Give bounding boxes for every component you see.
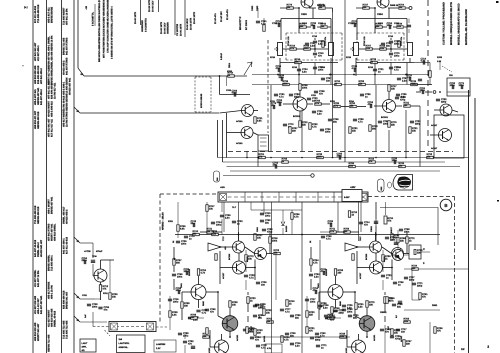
resistor R7R6 — [371, 61, 378, 63]
wire rail drop — [388, 130, 390, 152]
svg-text:1k 5% RT/WS: 1k 5% RT/WS — [66, 111, 69, 127]
resistor — [403, 340, 405, 347]
svg-text:C706: C706 — [226, 89, 232, 92]
wire — [219, 251, 221, 284]
capacitor — [436, 99, 440, 100]
transistor T81 — [370, 241, 382, 253]
wire bus2 (y113) — [80, 112, 219, 114]
potentiometer P7R1 — [354, 43, 359, 56]
resistor — [412, 268, 419, 270]
svg-text:2.2n: 2.2n — [402, 79, 407, 82]
svg-text:C716: C716 — [388, 35, 394, 38]
svg-text:405-2 406 618: 405-2 406 618 — [51, 101, 54, 117]
transistor T803 — [393, 250, 404, 261]
wire — [100, 292, 102, 301]
capacitor C750 — [260, 213, 264, 214]
svg-text:4Ω: 4Ω — [82, 349, 85, 352]
potentiometer P7R2 — [408, 43, 413, 56]
capacitor C847 (elco) — [374, 220, 378, 222]
wire — [317, 26, 320, 28]
svg-text:0.33uF: 0.33uF — [220, 52, 223, 60]
svg-text:100u: 100u — [450, 84, 456, 87]
svg-text:4.7u: 4.7u — [285, 310, 290, 313]
wire — [408, 29, 410, 33]
svg-text:22u: 22u — [386, 44, 391, 47]
wire — [325, 317, 328, 319]
capacitor C849 (elco) — [394, 241, 398, 243]
potentiometer P7L1 — [278, 43, 283, 56]
capacitor on bus — [275, 164, 276, 168]
svg-text:2.2n: 2.2n — [317, 112, 322, 115]
svg-text:AD161: AD161 — [263, 335, 266, 342]
junction — [238, 234, 240, 236]
capacitor — [328, 119, 332, 120]
junction on bus — [405, 157, 407, 159]
transistor T706 — [439, 129, 452, 142]
wire dashed-box right — [403, 33, 405, 60]
wire — [357, 267, 370, 269]
svg-text:2.2k: 2.2k — [212, 232, 217, 235]
svg-text:2.2n: 2.2n — [323, 306, 328, 309]
wire — [254, 110, 259, 112]
potentiometer P7L2 — [329, 43, 334, 56]
resistor on bus — [411, 83, 418, 85]
svg-text:R712: R712 — [302, 22, 308, 25]
svg-text:470p: 470p — [232, 92, 238, 95]
wire — [346, 330, 348, 347]
wire — [306, 26, 311, 28]
node table-line-2 — [158, 0, 160, 12]
svg-text:100n: 100n — [459, 84, 465, 87]
svg-text:R905 1k: R905 1k — [390, 4, 399, 7]
capacitor C737 (elco) — [191, 345, 195, 347]
resistor R725 — [299, 121, 301, 128]
wire center rail — [301, 202, 303, 353]
svg-text:22 nF-47n: 22 nF-47n — [214, 13, 217, 24]
resistor R747 — [203, 336, 210, 338]
capacitor — [168, 299, 172, 300]
wire — [382, 26, 387, 28]
svg-text:47n: 47n — [364, 223, 369, 226]
resistor on bus — [359, 83, 366, 85]
svg-text:C719: C719 — [396, 66, 402, 69]
svg-text:MODELL 8842/2280AFD SU 380CD: MODELL 8842/2280AFD SU 380CD — [458, 3, 461, 45]
svg-text:220p: 220p — [279, 76, 285, 79]
wire dashed right of bar2 — [156, 326, 167, 328]
capacitor — [280, 309, 284, 310]
transistor T85 (power) — [359, 316, 375, 332]
svg-text:6.8k: 6.8k — [404, 320, 409, 323]
svg-text:100k: 100k — [302, 86, 308, 89]
node bar pin X right — [360, 194, 367, 201]
wire dashed-box right — [341, 33, 343, 60]
svg-text:BR/GE 641 407: BR/GE 641 407 — [66, 291, 69, 309]
resistor R745 — [181, 302, 183, 309]
capacitor C7R1 — [354, 23, 355, 27]
capacitor — [404, 277, 408, 278]
resistor R706 — [228, 75, 235, 77]
wire — [182, 291, 191, 293]
svg-text:10n: 10n — [326, 79, 331, 82]
svg-text:2N3055: 2N3055 — [325, 268, 328, 276]
capacitor — [290, 343, 294, 344]
wire rail drop — [301, 111, 303, 152]
svg-text:22u: 22u — [353, 316, 358, 319]
wire bus y162 — [223, 161, 446, 163]
svg-text:AD162: AD162 — [345, 347, 348, 353]
wire — [383, 267, 393, 269]
transistor T83 arrow — [394, 254, 399, 258]
capacitor — [318, 305, 322, 306]
svg-text:2.2k: 2.2k — [366, 47, 371, 50]
wire — [226, 113, 228, 158]
capacitor — [412, 283, 416, 284]
node table-line-1 — [140, 0, 142, 25]
resistor R7R3 — [397, 26, 404, 28]
svg-text:NF/END - 288.58: NF/END - 288.58 — [162, 212, 165, 230]
wire — [406, 244, 408, 254]
node bar2 pin X left — [111, 323, 118, 330]
svg-text:100u: 100u — [183, 334, 189, 337]
svg-text:SW/BL 628 406: SW/BL 628 406 — [51, 51, 54, 69]
wire bus3 bend — [74, 237, 80, 243]
wire — [382, 280, 384, 290]
svg-text:220p: 220p — [82, 259, 88, 262]
wire — [219, 76, 221, 95]
resistor — [286, 300, 288, 307]
capacitor C7R9 — [397, 78, 401, 79]
svg-text:712 405 712 405: 712 405 712 405 — [66, 320, 69, 339]
svg-text:4.7u: 4.7u — [326, 237, 331, 240]
transistor T9R (top) — [377, 0, 389, 8]
junction — [439, 91, 441, 93]
wire — [177, 202, 179, 224]
wire — [358, 246, 370, 248]
wire — [318, 309, 320, 320]
svg-text:47n: 47n — [276, 67, 281, 70]
wire — [238, 232, 240, 241]
node corner speck 2 — [497, 200, 499, 202]
capacitor C731 — [84, 260, 85, 264]
wire dashed-box2 bottom — [195, 111, 211, 113]
resistor R747 — [206, 205, 208, 212]
svg-text:4.7k: 4.7k — [312, 125, 317, 128]
resistor R723 — [334, 105, 341, 107]
wire right-rail-2 — [474, 98, 476, 250]
svg-text:C711: C711 — [272, 22, 278, 25]
svg-text:MODELL 2280(A)/AUSSER HELSTN: MODELL 2280(A)/AUSSER HELSTN — [450, 2, 453, 45]
svg-text:22u: 22u — [397, 305, 402, 308]
resistor R821 — [344, 231, 351, 233]
resistor on bus — [283, 83, 290, 85]
resistor on bus — [399, 165, 406, 167]
svg-text:AD162: AD162 — [208, 347, 211, 353]
wire — [406, 232, 408, 236]
resistor R846 — [348, 211, 350, 218]
resistor R831 — [411, 252, 418, 254]
capacitor — [316, 345, 320, 346]
svg-text:AC127: AC127 — [222, 272, 225, 279]
wire — [397, 230, 399, 237]
svg-text:47n: 47n — [210, 310, 215, 313]
junction — [330, 74, 332, 76]
wire dashed-box left — [285, 33, 287, 60]
wire — [188, 317, 191, 319]
wire — [296, 48, 304, 50]
resistor — [386, 297, 388, 304]
svg-text:6.8k: 6.8k — [180, 227, 185, 230]
capacitor C751 — [176, 241, 180, 242]
svg-text:100n: 100n — [181, 242, 187, 245]
capacitor — [290, 315, 294, 316]
wire — [307, 103, 313, 105]
wire bar2 centerline — [111, 326, 154, 328]
wire dashed separator x268 — [267, 40, 269, 133]
capacitor C823 — [399, 229, 403, 230]
transistor power-package icon — [393, 175, 413, 191]
svg-text:100n: 100n — [92, 305, 98, 308]
svg-text:C713: C713 — [318, 22, 324, 25]
capacitor C751 — [260, 220, 264, 221]
svg-text:100u: 100u — [394, 54, 400, 57]
resistor R724 — [173, 259, 175, 266]
capacitor C7R5 — [389, 53, 393, 54]
resistor — [169, 311, 171, 318]
svg-text:220p: 220p — [415, 122, 421, 125]
capacitor — [320, 129, 324, 130]
wire — [412, 84, 432, 86]
capacitor C7R7 — [373, 69, 377, 70]
svg-text:10n: 10n — [273, 164, 278, 167]
wire — [374, 105, 383, 107]
resistor — [331, 307, 333, 314]
resistor on bus — [335, 83, 342, 85]
wire module-boundary left — [159, 194, 161, 322]
wire — [101, 259, 115, 261]
resistor R7L4 — [290, 48, 297, 50]
svg-text:2.2n: 2.2n — [302, 70, 307, 73]
node label box LAUT — [80, 339, 96, 352]
wire — [93, 275, 94, 277]
capacitor C761 — [423, 60, 424, 64]
svg-text:R706: R706 — [227, 70, 233, 73]
wire — [397, 243, 399, 250]
wire — [279, 58, 281, 76]
wire — [411, 269, 413, 300]
wire — [384, 316, 386, 322]
resistor R722 — [254, 234, 256, 241]
wire — [246, 267, 256, 269]
capacitor C842 — [333, 310, 337, 311]
svg-text:712 405 406 618: 712 405 406 618 — [37, 4, 40, 23]
node small box — [447, 78, 470, 96]
junction — [405, 74, 407, 76]
capacitor C736 — [183, 341, 187, 342]
wire — [291, 220, 293, 235]
resistor — [419, 293, 421, 300]
wire — [218, 316, 224, 319]
wire — [411, 105, 420, 107]
wire rail — [337, 202, 339, 232]
svg-text:R716 2.2k: R716 2.2k — [363, 36, 366, 46]
wire — [406, 63, 408, 85]
svg-text:B2017: B2017 — [390, 226, 393, 233]
wire — [321, 103, 330, 105]
svg-text:40-618 641 407: 40-618 641 407 — [40, 239, 43, 257]
wire rail drop — [257, 151, 259, 167]
capacitor inside box — [452, 85, 453, 89]
wire rail drop — [270, 85, 272, 152]
node harness-line-2 — [46, 0, 48, 353]
svg-text:470uF: 470uF — [96, 250, 103, 253]
capacitor C7L4 — [313, 41, 317, 42]
wire — [109, 260, 111, 292]
capacitor C847 — [380, 329, 384, 330]
wire rail drop — [405, 110, 407, 158]
capacitor C749 — [232, 221, 236, 222]
svg-text:10n: 10n — [401, 330, 406, 333]
wire — [374, 63, 376, 85]
svg-text:100n: 100n — [329, 316, 335, 319]
svg-text:BC238: BC238 — [228, 253, 231, 260]
junction on bus — [257, 157, 259, 159]
svg-text:4.7u: 4.7u — [407, 76, 412, 79]
svg-text:R715: R715 — [270, 56, 276, 59]
svg-text:100u: 100u — [265, 214, 271, 217]
svg-text:2.2n: 2.2n — [310, 44, 315, 47]
svg-text:641 407 1k 5%: 641 407 1k 5% — [37, 270, 40, 287]
wire bus1 (y76) — [84, 75, 247, 77]
resistor R7R2 — [376, 26, 383, 28]
svg-text:100k: 100k — [283, 82, 289, 85]
node bar pin tick — [244, 192, 246, 202]
op-amp triangle U7 — [208, 243, 221, 251]
wire — [429, 322, 431, 353]
resistor — [306, 327, 308, 334]
svg-text:R715: R715 — [346, 56, 352, 59]
svg-text:2N3055: 2N3055 — [188, 268, 191, 276]
wire dashed corner — [452, 196, 455, 198]
svg-text:R831: R831 — [432, 304, 438, 307]
wire — [314, 63, 316, 75]
svg-text:100u: 100u — [337, 155, 343, 158]
wire — [421, 251, 430, 253]
svg-text:BC 238 B: BC 238 B — [245, 20, 248, 30]
resistor R709 — [263, 25, 265, 32]
svg-text:BC301: BC301 — [293, 115, 301, 118]
wire — [100, 260, 102, 269]
transistor T9L (top) — [301, 0, 313, 8]
svg-text:10n: 10n — [261, 283, 266, 286]
resistor R723 — [269, 237, 271, 244]
resistor R848 — [391, 329, 393, 336]
wire — [343, 291, 355, 293]
resistor R823 — [406, 237, 408, 244]
wire — [429, 63, 431, 86]
wire — [181, 292, 183, 301]
wire rail from bar — [375, 202, 377, 241]
wire — [390, 49, 392, 52]
wire — [354, 292, 356, 316]
capacitor — [342, 309, 346, 310]
resistor on bus — [282, 161, 289, 163]
wire rail — [358, 202, 360, 241]
svg-text:220p: 220p — [409, 278, 415, 281]
resistor R845 — [318, 302, 320, 309]
resistor R824 — [310, 259, 312, 266]
resistor — [328, 317, 335, 319]
svg-text:100n: 100n — [176, 289, 182, 292]
resistor R7L2 — [300, 26, 307, 28]
wire — [388, 92, 390, 100]
wire bus (y74.5) — [252, 74, 430, 76]
resistor R744 — [247, 297, 249, 304]
resistor R749 — [267, 321, 274, 323]
capacitor C732 — [87, 304, 91, 305]
transistor T803 arrow — [394, 255, 400, 260]
wire dashed separator right x428 — [427, 0, 429, 148]
capacitor (elco) — [398, 300, 402, 302]
svg-text:100n: 100n — [390, 238, 396, 241]
svg-text:AWENDER: AWENDER — [141, 20, 144, 32]
capacitor C721 — [273, 105, 274, 109]
junction — [229, 336, 231, 338]
svg-text:R703: R703 — [437, 56, 443, 59]
wire dashed corner bar2 — [105, 330, 111, 336]
wire — [391, 260, 393, 281]
svg-text:47n: 47n — [313, 289, 318, 292]
resistor — [382, 255, 384, 262]
wire — [355, 58, 357, 76]
svg-text:C716: C716 — [312, 35, 318, 38]
wire — [375, 253, 377, 261]
wire — [310, 247, 312, 258]
svg-text:MATERIAL-NR. 29.28089.9050: MATERIAL-NR. 29.28089.9050 — [465, 9, 468, 45]
capacitor C7R2 — [389, 25, 390, 29]
svg-text:220p: 220p — [339, 311, 345, 314]
wire bus y337 — [250, 336, 350, 338]
junction — [354, 291, 356, 293]
svg-text:+25V: +25V — [350, 186, 356, 189]
resistor on bus — [369, 161, 376, 163]
wire bus3 drop — [92, 243, 94, 258]
capacitor on bus — [339, 155, 340, 159]
junction — [329, 74, 331, 76]
wire — [414, 62, 430, 64]
svg-text:1k 5% 617 411: 1k 5% 617 411 — [54, 82, 57, 99]
resistor on bus — [427, 156, 434, 158]
resistor R844 — [384, 297, 386, 304]
node table-line-4 — [184, 0, 186, 37]
wire — [359, 48, 365, 50]
svg-text:641 407 RT/WS: 641 407 RT/WS — [66, 57, 69, 75]
capacitor — [353, 119, 357, 120]
capacitor C723 — [307, 98, 311, 99]
svg-text:100u: 100u — [387, 24, 393, 27]
svg-text:C5002: C5002 — [380, 311, 387, 314]
wire dashed-box2 top — [195, 76, 211, 78]
wire — [447, 91, 470, 93]
wire rail from bar — [238, 202, 240, 241]
wire — [375, 202, 377, 219]
wire — [385, 202, 387, 215]
diode D701 — [281, 222, 285, 226]
wire — [299, 111, 301, 120]
svg-text:BR/GE BR/GE: BR/GE BR/GE — [51, 7, 54, 23]
svg-text:641 407 RT/WS: 641 407 RT/WS — [66, 37, 69, 55]
svg-text:WS/RT 641 407: WS/RT 641 407 — [37, 323, 40, 341]
wire center-rail-1 — [332, 12, 334, 85]
